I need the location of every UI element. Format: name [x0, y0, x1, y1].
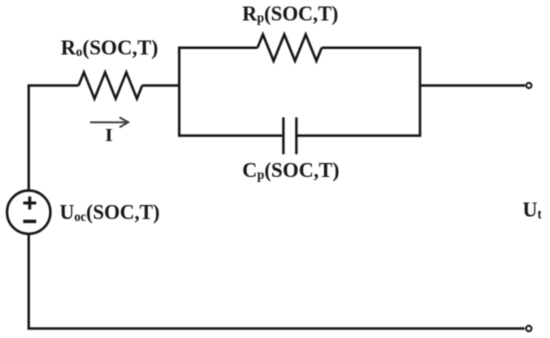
svg-text:I: I — [105, 126, 113, 146]
wire resistor R0 to RC box — [142, 84, 179, 87]
wire left branch (top horizontal + left vertical above source) — [29, 86, 79, 191]
svg-text:Rp(SOC,T): Rp(SOC,T) — [242, 1, 338, 26]
terminal top-right — [526, 83, 531, 88]
voltage source plus sign — [23, 197, 36, 210]
svg-text:Ut: Ut — [523, 197, 543, 222]
terminal bottom-right — [526, 326, 531, 331]
voltage source minus sign — [23, 220, 36, 223]
capacitor Cp right plate — [295, 117, 298, 154]
resistor Rp zigzag — [258, 35, 322, 61]
label I — [105, 126, 113, 146]
svg-text:Ro(SOC,T): Ro(SOC,T) — [61, 35, 158, 59]
svg-text:Uoc(SOC,T): Uoc(SOC,T) — [60, 200, 160, 225]
svg-text:Cp(SOC,T): Cp(SOC,T) — [242, 158, 339, 182]
wire RC box right + bottom-right + top-right side — [297, 48, 420, 136]
label Rp(SOC,T) — [242, 1, 338, 26]
label R0(SOC,T) — [61, 35, 158, 59]
current arrow I — [90, 117, 128, 127]
voltage source U_oc circle — [7, 191, 50, 234]
wire left vertical below source + bottom horizontal — [29, 234, 525, 329]
capacitor Cp left plate — [282, 117, 285, 154]
resistor R0 zigzag — [79, 72, 143, 98]
wire RC box to top terminal — [420, 84, 525, 87]
label Ut — [523, 197, 543, 222]
label Uoc(SOC,T) — [60, 200, 160, 225]
label Cp(SOC,T) — [242, 158, 339, 182]
wire RC box left + bottom-left side — [179, 48, 282, 136]
